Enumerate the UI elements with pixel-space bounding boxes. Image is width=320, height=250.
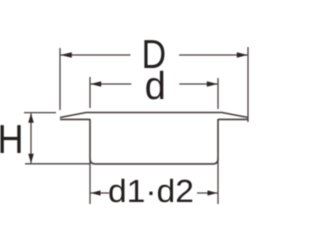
arrow d1d2 right [208,190,218,195]
arrow d right [207,81,218,86]
extension line D left [59,48,61,110]
arrow H bottom [28,154,34,164]
flange bottom edge right [218,118,248,120]
arrow D right [237,52,248,57]
leader H bottom [25,163,90,165]
extension line d left [89,77,91,108]
flange bottom edge left [60,118,90,120]
cup body outline [90,119,218,164]
dimension line D [60,54,248,56]
dimension line d1d2 [90,192,218,194]
arrow H top [28,113,34,123]
dimension line d [90,83,218,85]
arrow d1d2 left [91,190,101,195]
extension line d1d2 right [217,158,219,204]
extension line d right [217,78,219,109]
arrow D left [60,52,71,57]
label d [146,71,163,100]
label D [144,40,164,68]
arrow d left [90,81,101,86]
extension line d1d2 left [89,160,91,204]
label H [0,125,20,153]
leader H top [24,112,56,114]
extension line D right [247,47,249,122]
flange top edge [60,113,248,118]
label d1·d2 [109,179,192,203]
dimension line H [30,113,32,162]
